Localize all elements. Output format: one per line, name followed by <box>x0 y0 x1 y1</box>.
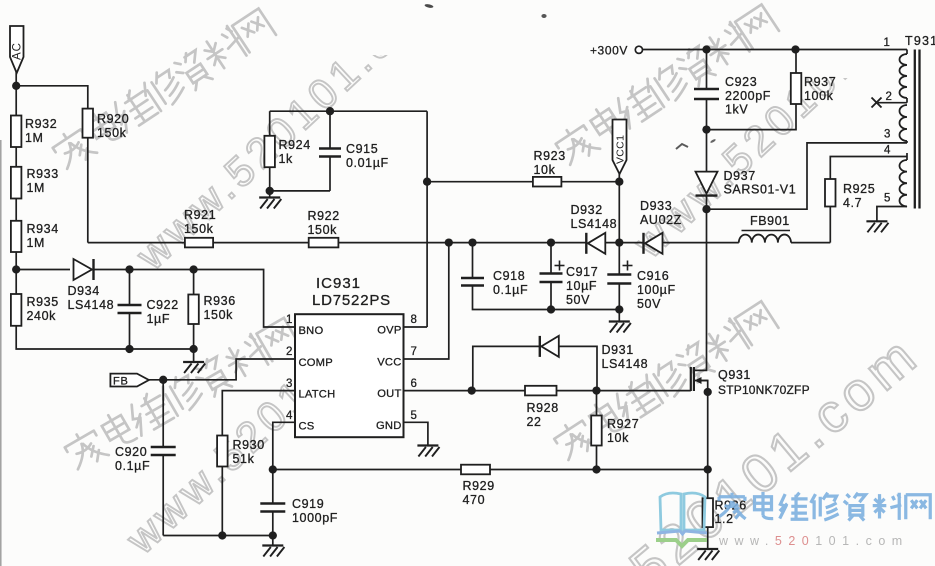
svg-text:150k: 150k <box>204 308 234 322</box>
svg-text:R921: R921 <box>184 208 216 222</box>
svg-text:240k: 240k <box>27 309 57 323</box>
svg-text:3: 3 <box>884 129 890 141</box>
svg-text:VCC: VCC <box>377 357 401 369</box>
svg-text:C919: C919 <box>292 497 324 511</box>
svg-text:R920: R920 <box>97 112 129 126</box>
svg-text:R930: R930 <box>233 438 265 452</box>
svg-text:4: 4 <box>884 145 891 157</box>
svg-text:4.7: 4.7 <box>843 196 862 210</box>
svg-text:50V: 50V <box>637 297 661 311</box>
svg-text:LS4148: LS4148 <box>68 298 115 312</box>
svg-text:R936: R936 <box>204 294 236 308</box>
svg-text:T931: T931 <box>905 34 935 48</box>
svg-text:C917: C917 <box>566 265 598 279</box>
svg-text:1: 1 <box>884 37 890 49</box>
svg-text:C922: C922 <box>147 298 179 312</box>
svg-text:3: 3 <box>286 378 292 390</box>
svg-text:R934: R934 <box>27 222 59 236</box>
svg-text:R933: R933 <box>27 167 59 181</box>
svg-text:AU02Z: AU02Z <box>640 213 682 227</box>
svg-text:C920: C920 <box>115 445 147 459</box>
svg-text:LS4148: LS4148 <box>602 357 649 371</box>
svg-text:R925: R925 <box>843 182 875 196</box>
svg-text:470: 470 <box>463 493 486 507</box>
svg-text:R935: R935 <box>27 295 59 309</box>
svg-text:GND: GND <box>376 420 401 432</box>
svg-text:R932: R932 <box>25 117 57 131</box>
svg-text:R928: R928 <box>527 401 559 415</box>
svg-text:FB: FB <box>113 376 129 388</box>
svg-text:COMP: COMP <box>299 357 333 369</box>
svg-text:0.1µF: 0.1µF <box>493 283 528 297</box>
svg-text:C923: C923 <box>725 75 757 89</box>
svg-text:10k: 10k <box>607 431 629 445</box>
svg-text:BNO: BNO <box>299 325 324 337</box>
svg-text:LATCH: LATCH <box>299 389 336 401</box>
svg-text:1: 1 <box>286 314 292 326</box>
svg-text:www.520101.com: www.520101.com <box>718 534 909 548</box>
svg-text:IC931: IC931 <box>316 275 361 292</box>
svg-text:1000pF: 1000pF <box>292 511 338 525</box>
svg-text:D937: D937 <box>724 169 756 183</box>
svg-text:C918: C918 <box>493 269 525 283</box>
svg-text:1M: 1M <box>25 131 44 145</box>
svg-text:R922: R922 <box>308 209 340 223</box>
svg-text:CS: CS <box>299 421 315 433</box>
svg-text:OVP: OVP <box>377 325 401 337</box>
svg-text:10k: 10k <box>534 163 556 177</box>
svg-text:LS4148: LS4148 <box>571 217 618 231</box>
svg-text:FB901: FB901 <box>750 214 790 228</box>
svg-text:LD7522PS: LD7522PS <box>312 292 391 309</box>
svg-text:D932: D932 <box>571 203 603 217</box>
svg-text:1M: 1M <box>27 236 46 250</box>
svg-text:1kV: 1kV <box>725 103 748 117</box>
svg-text:7: 7 <box>411 346 417 358</box>
svg-text:150k: 150k <box>308 223 338 237</box>
svg-text:100µF: 100µF <box>637 283 676 297</box>
svg-text:5: 5 <box>884 193 890 205</box>
svg-text:+300V: +300V <box>590 44 628 58</box>
svg-text:150k: 150k <box>97 126 127 140</box>
svg-text:8: 8 <box>411 314 417 326</box>
svg-text:R924: R924 <box>279 138 311 152</box>
svg-text:D931: D931 <box>602 343 634 357</box>
svg-text:0.1µF: 0.1µF <box>115 459 150 473</box>
svg-text:100k: 100k <box>804 89 834 103</box>
svg-text:Q931: Q931 <box>718 368 751 382</box>
svg-text:OUT: OUT <box>377 388 401 400</box>
svg-text:50V: 50V <box>566 293 590 307</box>
svg-text:D933: D933 <box>640 199 672 213</box>
svg-text:C915: C915 <box>346 142 378 156</box>
svg-text:5: 5 <box>411 410 417 422</box>
svg-text:1µF: 1µF <box>147 312 171 326</box>
svg-text:6: 6 <box>411 378 417 390</box>
svg-text:22: 22 <box>527 415 542 429</box>
svg-text:150k: 150k <box>184 222 214 236</box>
svg-text:STP10NK70ZFP: STP10NK70ZFP <box>718 383 810 397</box>
svg-text:10µF: 10µF <box>566 279 597 293</box>
svg-text:R937: R937 <box>804 75 836 89</box>
svg-text:R927: R927 <box>607 417 639 431</box>
svg-text:2: 2 <box>886 91 892 103</box>
svg-text:2200pF: 2200pF <box>725 89 771 103</box>
svg-text:1k: 1k <box>279 152 294 166</box>
svg-text:VCC1: VCC1 <box>615 135 627 164</box>
svg-text:51k: 51k <box>233 452 255 466</box>
svg-text:SARS01-V1: SARS01-V1 <box>724 183 797 197</box>
svg-text:C916: C916 <box>637 269 669 283</box>
svg-text:4: 4 <box>286 410 293 422</box>
svg-text:1M: 1M <box>27 181 46 195</box>
svg-text:0.01µF: 0.01µF <box>346 156 389 170</box>
svg-text:2: 2 <box>286 346 292 358</box>
svg-text:R929: R929 <box>463 479 495 493</box>
svg-text:R923: R923 <box>534 149 566 163</box>
svg-text:D934: D934 <box>68 284 100 298</box>
svg-text:AC: AC <box>12 42 24 60</box>
